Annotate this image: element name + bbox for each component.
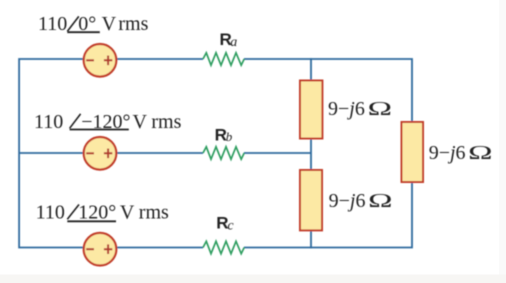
- svg-text:c: c: [227, 219, 234, 234]
- impedance Z3 (9-j6 ohm right): [402, 122, 424, 182]
- label: 9-j6 ohm (Z1): [328, 98, 392, 120]
- svg-text:V: V: [102, 13, 117, 35]
- label: 110 angle 0 V rms: [38, 13, 149, 35]
- svg-text:−120°: −120°: [81, 111, 130, 133]
- svg-text:120°: 120°: [78, 202, 116, 224]
- svg-text:rms: rms: [118, 13, 148, 35]
- svg-text:9−j6: 9−j6: [429, 142, 466, 164]
- svg-text:rms: rms: [139, 202, 169, 224]
- resistor Rb: [203, 147, 244, 159]
- svg-text:9−j6: 9−j6: [328, 98, 365, 120]
- label: 9-j6 ohm (Z2): [329, 190, 393, 212]
- svg-text:Ω: Ω: [368, 98, 392, 120]
- svg-text:110: 110: [36, 202, 65, 224]
- svg-text:Ω: Ω: [368, 190, 392, 212]
- svg-text:9−j6: 9−j6: [329, 190, 366, 212]
- impedance Z1 (9-j6 ohm upper middle): [300, 81, 322, 139]
- voltage source V3 (110 angle 120): [84, 233, 117, 266]
- wire: Z2 to bottom wire: [310, 230, 312, 248]
- svg-text:V: V: [120, 202, 135, 224]
- label Rb: [215, 125, 233, 144]
- label Rc: [216, 213, 234, 233]
- svg-text:110: 110: [34, 111, 63, 133]
- wire: left loop (top-left wire, left bus, bottom-left wire): [19, 59, 203, 248]
- svg-text:a: a: [230, 35, 237, 50]
- wire: top-right segment with right bus upper part: [244, 59, 412, 122]
- resistor Rc: [203, 241, 244, 253]
- wire: right bus lower part with bottom-right segment: [244, 182, 412, 248]
- svg-text:V: V: [133, 111, 148, 133]
- svg-text:0°: 0°: [78, 13, 96, 35]
- voltage source V2 (110 angle -120): [84, 137, 117, 170]
- resistor Ra: [203, 53, 244, 65]
- label: 9-j6 ohm (Z3): [429, 142, 493, 164]
- svg-text:Ω: Ω: [468, 142, 492, 164]
- wire: Z1 to Z2 through middle node: [310, 139, 312, 171]
- voltage source V1 (110 angle 0): [84, 44, 117, 77]
- svg-text:b: b: [226, 129, 233, 144]
- wire: middle-right segment: [244, 152, 311, 154]
- svg-text:110: 110: [38, 13, 67, 35]
- svg-text:rms: rms: [151, 111, 181, 133]
- label: 110 angle 120 V rms: [36, 202, 169, 224]
- wire: middle-left segment: [19, 152, 203, 154]
- label Ra: [220, 30, 238, 50]
- impedance Z2 (9-j6 ohm lower middle): [300, 170, 322, 230]
- label: 110 angle -120 V rms: [34, 111, 182, 133]
- wire: top node to Z1: [310, 58, 312, 80]
